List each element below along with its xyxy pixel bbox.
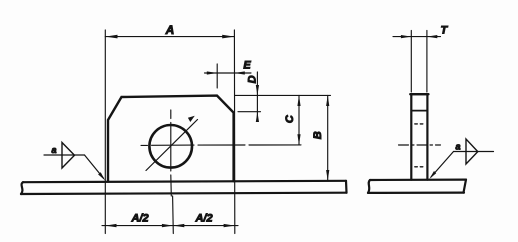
dimension D arrow bottom: [256, 112, 259, 122]
dimension B line: [327, 95, 329, 180]
base plate bar (front view): [21, 181, 347, 194]
dimension E arrow right: [234, 71, 244, 74]
hole circle: [149, 125, 192, 168]
weld symbol triangle (front view): [62, 143, 75, 169]
chamfer projection line (side view): [411, 110, 427, 112]
lug plate outline (front view): [108, 96, 234, 182]
lug top edge (side view): [410, 93, 428, 95]
dimension A/2 middle arrow left: [162, 224, 173, 227]
weld symbol leader arrowhead (side view): [429, 171, 436, 179]
svg-text:a: a: [455, 141, 460, 151]
dimension T extension line left: [410, 31, 412, 93]
weld symbol leader (side view): [431, 152, 454, 178]
svg-text:D: D: [247, 75, 259, 83]
dimension T line: [393, 36, 441, 38]
dimension E line: [205, 72, 252, 74]
hole vertical centerline / A-2 middle extension: [171, 110, 174, 234]
dimension C line: [298, 95, 300, 144]
dimension A/2 middle arrow right: [173, 224, 184, 227]
svg-text:A/2: A/2: [130, 213, 148, 225]
dimension A arrow left: [105, 35, 117, 39]
hidden hole line bottom (side view): [415, 166, 423, 168]
dimension A/2 line: [102, 225, 238, 227]
svg-text:E: E: [243, 59, 251, 71]
weld symbol leader (front view): [85, 155, 104, 178]
chamfer corner extension line (for D): [238, 111, 261, 113]
dimension C arrow bottom: [297, 134, 300, 145]
dimension A extension line right: [233, 30, 235, 234]
lug plate outline (side view): [411, 94, 427, 179]
base plate bar (side view): [368, 180, 466, 193]
svg-text:C: C: [284, 114, 296, 123]
dimension T arrow right: [427, 35, 437, 38]
weld symbol reference line (side view): [454, 151, 494, 153]
svg-text:a: a: [51, 145, 56, 155]
svg-text:B: B: [312, 131, 324, 139]
dimension A/2 left arrow: [105, 224, 116, 227]
hole centerline (side view): [399, 144, 441, 146]
hole diameter leader line: [146, 120, 198, 171]
top edge extension line (for D, C, B): [235, 94, 331, 96]
dimension E extension line: [216, 64, 218, 88]
dimension A line: [105, 36, 234, 38]
dimension A/2 right arrow: [224, 224, 235, 227]
weld symbol triangle (side view): [466, 139, 478, 164]
dimension B arrow bottom: [326, 170, 329, 181]
dimension T extension line right: [426, 31, 428, 93]
dimension B arrow top: [326, 95, 329, 106]
dimension D arrow top: [256, 85, 259, 95]
weld symbol reference line (front view): [44, 154, 85, 156]
dimension D line: [256, 72, 258, 121]
dimension C arrow top: [297, 95, 300, 106]
dimension E arrow left: [207, 71, 217, 74]
svg-text:A: A: [165, 23, 175, 37]
svg-text:T: T: [441, 25, 449, 37]
hidden hole line top (side view): [415, 123, 423, 125]
hole horizontal centerline / C extension: [141, 144, 301, 147]
weld symbol leader arrowhead (front view): [98, 172, 105, 180]
dimension A arrow right: [222, 35, 234, 39]
svg-text:A/2: A/2: [194, 213, 212, 225]
hole leader arrowhead: [188, 116, 195, 122]
dimension T arrow left: [401, 35, 411, 38]
dimension A extension line left: [104, 30, 106, 234]
